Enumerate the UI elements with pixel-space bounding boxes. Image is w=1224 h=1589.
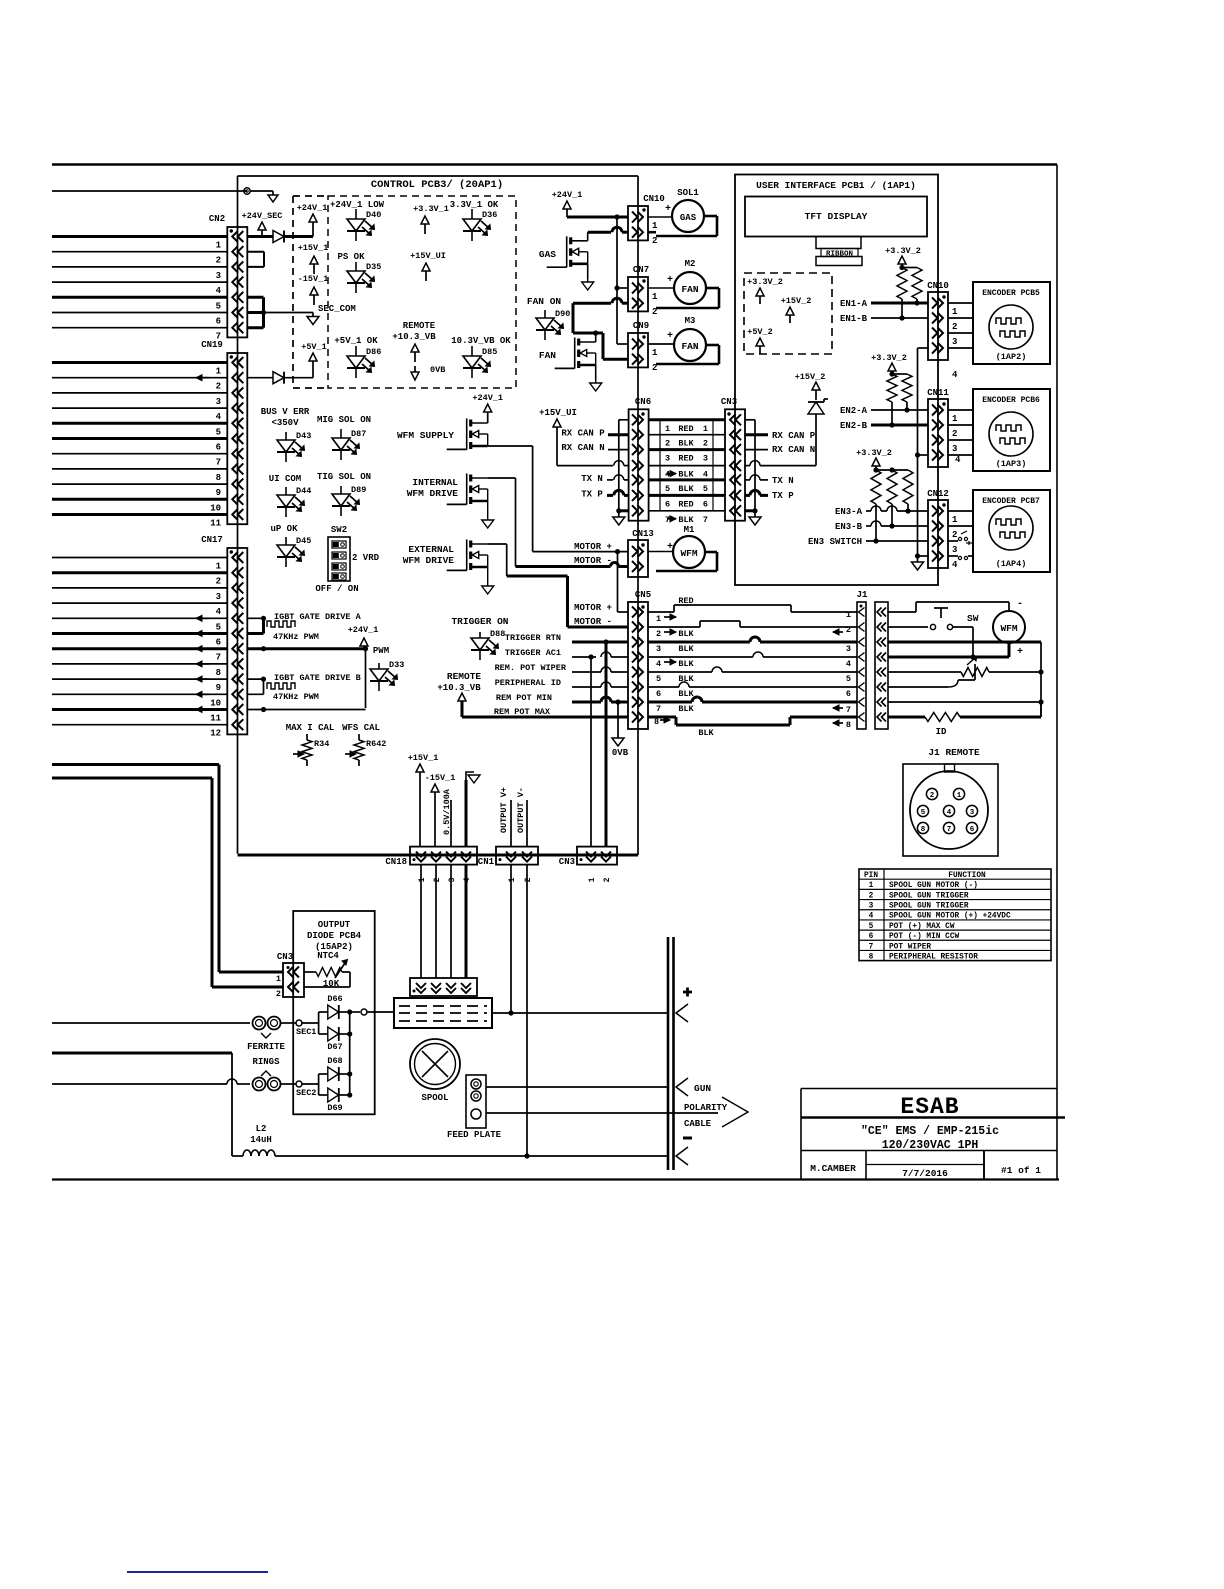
connector CN2: [209, 214, 247, 342]
wire TRIGGER RTN to CN5 pin3: [505, 633, 628, 645]
svg-text:ID: ID: [936, 727, 947, 737]
svg-text:10.3V_VB OK: 10.3V_VB OK: [451, 336, 511, 346]
svg-text:0VB: 0VB: [430, 365, 445, 375]
svg-text:+3.3V_2: +3.3V_2: [885, 246, 921, 256]
resistor ID peripheral: [888, 702, 1041, 737]
wire trigger drop to CN3 pin2: [605, 642, 608, 846]
svg-text:47KHz PWM: 47KHz PWM: [273, 632, 319, 642]
svg-text:RX CAN P: RX CAN P: [772, 431, 816, 441]
svg-text:4: 4: [947, 809, 952, 817]
svg-text:WFM: WFM: [680, 548, 697, 559]
svg-text:D36: D36: [482, 210, 497, 220]
svg-text:12: 12: [210, 729, 221, 739]
wire PERIPHERAL ID to CN5 pin6: [495, 678, 628, 688]
supply -15V_1: [298, 274, 329, 305]
connector shunt strip: [410, 978, 477, 996]
svg-text:<350V: <350V: [271, 418, 299, 428]
svg-text:6: 6: [216, 443, 221, 453]
svg-text:2: 2: [952, 530, 957, 540]
svg-text:8: 8: [216, 668, 221, 678]
svg-text:EN3 SWITCH: EN3 SWITCH: [808, 537, 862, 547]
svg-text:EXTERNAL: EXTERNAL: [408, 544, 454, 555]
svg-text:2: 2: [656, 629, 661, 639]
svg-text:1: 1: [652, 221, 658, 231]
svg-text:RINGS: RINGS: [252, 1057, 280, 1067]
wire OUTPUT V+ sense: [510, 800, 512, 847]
ground 0VB in LED box: [411, 365, 445, 380]
svg-text:BLK: BLK: [678, 439, 694, 449]
svg-text:+5V_1 OK: +5V_1 OK: [334, 336, 378, 346]
svg-text:POT (+) MAX CW: POT (+) MAX CW: [889, 923, 955, 931]
svg-text:1: 1: [957, 792, 962, 800]
connector CN13: [628, 529, 654, 577]
svg-text:10K: 10K: [323, 979, 340, 989]
svg-text:OUTPUT V+: OUTPUT V+: [499, 787, 509, 833]
svg-text:PS OK: PS OK: [337, 252, 365, 262]
svg-text:REM POT MIN: REM POT MIN: [496, 693, 552, 703]
user interface PCB1 outline (1AP1): [735, 175, 938, 586]
svg-text:PERIPHERAL ID: PERIPHERAL ID: [495, 678, 561, 688]
svg-text:1: 1: [418, 877, 427, 882]
svg-text:+24V_SEC: +24V_SEC: [242, 211, 283, 221]
svg-text:10: 10: [210, 698, 221, 708]
svg-text:+15V_UI: +15V_UI: [410, 251, 446, 261]
label 0.5V/100A shunt signal: [442, 788, 452, 847]
svg-text:CN2: CN2: [209, 214, 225, 224]
wire RX CAN N left: [561, 443, 628, 453]
svg-text:2: 2: [276, 989, 281, 999]
encoder PCB6 (1AP3): [948, 389, 1050, 471]
svg-text:3: 3: [216, 592, 221, 602]
zener +15V_2 CAN termination: [745, 372, 828, 466]
svg-text:2: 2: [952, 429, 957, 439]
svg-text:+24V_1: +24V_1: [348, 625, 379, 635]
svg-text:BLK: BLK: [678, 629, 694, 639]
connector CN10 gas valve: [628, 194, 665, 246]
svg-text:2: 2: [524, 877, 533, 882]
svg-text:TX N: TX N: [772, 476, 794, 486]
svg-text:4: 4: [952, 370, 958, 380]
svg-text:J1 REMOTE: J1 REMOTE: [928, 747, 980, 758]
svg-text:+15V_2: +15V_2: [781, 296, 812, 306]
wire J1 pin7: [888, 701, 1041, 703]
LED D88 TRIGGER ON: [451, 616, 508, 660]
wire polarity cable: [486, 1097, 748, 1127]
wire gun negative feed: [52, 1052, 232, 1055]
svg-text:RED: RED: [678, 424, 693, 434]
encoder PCB7 (1AP4): [948, 490, 1050, 572]
svg-text:3.3V_1 OK: 3.3V_1 OK: [450, 200, 499, 210]
svg-text:1: 1: [952, 307, 958, 317]
svg-text:+5V_2: +5V_2: [747, 327, 773, 337]
dashed UI supply box: [744, 273, 832, 354]
svg-text:OFF / ON: OFF / ON: [315, 584, 358, 594]
diode D CN19 pin2 +5V_1: [247, 361, 313, 384]
wire thermistor feed lower: [52, 778, 283, 987]
wire OUTPUT V- sense: [526, 800, 528, 847]
svg-text:EN1-B: EN1-B: [840, 314, 868, 324]
terminal SEC2: [280, 1081, 316, 1098]
svg-text:7/7/2016: 7/7/2016: [902, 1168, 948, 1179]
svg-text:3: 3: [952, 545, 957, 555]
svg-text:4: 4: [656, 659, 661, 669]
connector CN7 fan M2: [628, 265, 658, 317]
ferrite rings SEC2: [253, 1078, 281, 1091]
svg-text:UI COM: UI COM: [269, 474, 301, 484]
connector CN9 fan M3: [628, 321, 658, 373]
svg-text:1: 1: [216, 241, 222, 251]
solenoid SOL1 GAS: [648, 188, 717, 236]
svg-text:EN1-A: EN1-A: [840, 299, 868, 309]
svg-text:CABLE: CABLE: [684, 1119, 712, 1129]
svg-text:+10.3_VB: +10.3_VB: [392, 332, 436, 342]
svg-text:3: 3: [665, 454, 670, 464]
connector CN6: [629, 397, 652, 521]
svg-text:CN18: CN18: [385, 857, 407, 867]
svg-text:+24V_1: +24V_1: [552, 190, 583, 200]
svg-text:CN11: CN11: [927, 388, 949, 398]
wire EN3-B: [835, 521, 928, 532]
control PCB3 board outline (20AP1): [238, 176, 639, 855]
svg-text:(1AP2): (1AP2): [996, 352, 1027, 362]
svg-text:RED: RED: [678, 596, 693, 606]
svg-text:CN6: CN6: [635, 397, 651, 407]
svg-text:6: 6: [216, 638, 221, 648]
svg-text:BLK: BLK: [678, 470, 694, 480]
LED D44: [277, 486, 311, 517]
svg-text:6: 6: [216, 317, 221, 327]
svg-text:7: 7: [703, 515, 708, 525]
svg-text:DIODE PCB4: DIODE PCB4: [307, 931, 362, 941]
svg-text:SPOOL GUN MOTOR (+) +24VDC: SPOOL GUN MOTOR (+) +24VDC: [889, 913, 1011, 921]
svg-text:CN10: CN10: [643, 194, 665, 204]
switch SW spool gun trigger: [888, 608, 979, 660]
svg-text:TIG SOL ON: TIG SOL ON: [317, 472, 371, 482]
svg-text:7: 7: [665, 515, 670, 525]
wire EN3 SWITCH: [808, 537, 928, 547]
svg-text:CN9: CN9: [633, 321, 649, 331]
trimpot R34 MAX I CAL: [286, 723, 335, 766]
svg-text:R34: R34: [314, 739, 329, 749]
supply +5V_1: [301, 342, 327, 361]
svg-text:WFS CAL: WFS CAL: [342, 723, 380, 733]
svg-text:#1 of 1: #1 of 1: [1001, 1165, 1041, 1176]
svg-text:5: 5: [656, 674, 661, 684]
svg-text:MIG SOL ON: MIG SOL ON: [317, 415, 371, 425]
svg-text:INTERNAL: INTERNAL: [412, 477, 458, 488]
svg-text:6: 6: [703, 499, 708, 509]
svg-text:4: 4: [952, 560, 958, 570]
svg-text:1: 1: [652, 348, 658, 358]
svg-text:2: 2: [703, 439, 708, 449]
wires CN2 pins to left edge: [52, 237, 227, 328]
svg-text:47KHz PWM: 47KHz PWM: [273, 692, 319, 702]
node IGBT GATE DRIVE A: [247, 612, 361, 642]
wire TX N left: [581, 474, 628, 484]
svg-text:D85: D85: [482, 347, 497, 357]
svg-text:SPOOL: SPOOL: [421, 1093, 448, 1103]
svg-text:GAS: GAS: [680, 213, 697, 223]
resistors EN3 pullups +3.3V_2: [856, 448, 913, 544]
svg-text:(1AP3): (1AP3): [996, 459, 1027, 469]
wire diode cathode bus: [350, 1009, 394, 1095]
svg-text:ENCODER PCB5: ENCODER PCB5: [982, 289, 1040, 298]
svg-text:+3.3V_2: +3.3V_2: [856, 448, 892, 458]
wire trigger drop to CN3 pin1: [590, 657, 592, 846]
wire REM. POT WIPER to CN5 pin5: [495, 663, 628, 673]
svg-text:CONTROL PCB3/ (20AP1): CONTROL PCB3/ (20AP1): [371, 179, 503, 191]
svg-text:FAN: FAN: [681, 341, 698, 352]
svg-text:+10.3_VB: +10.3_VB: [437, 683, 481, 693]
svg-text:10: 10: [210, 503, 221, 513]
dashed partition line control PCB: [292, 196, 294, 388]
svg-text:CN19: CN19: [201, 340, 223, 350]
svg-text:1: 1: [952, 515, 958, 525]
wire top auxiliary with terminal: [52, 188, 278, 202]
transistor Q GAS solenoid driver: [539, 236, 588, 267]
svg-text:RX CAN P: RX CAN P: [561, 429, 605, 439]
svg-text:1: 1: [846, 610, 851, 620]
wire J1 pin5 to pot: [888, 671, 961, 673]
svg-text:+15V_1: +15V_1: [298, 243, 329, 253]
svg-text:CN10: CN10: [927, 281, 949, 291]
svg-text:WFM DRIVE: WFM DRIVE: [407, 488, 459, 499]
connector CN19: [201, 340, 247, 529]
bus encoder pin4 common: [912, 348, 929, 570]
wire INTERNAL drain to MOTOR- rail: [488, 478, 516, 567]
svg-text:3: 3: [869, 903, 874, 911]
svg-text:+: +: [667, 275, 673, 286]
svg-text:SPOOL GUN TRIGGER: SPOOL GUN TRIGGER: [889, 892, 969, 900]
RIBBON cable: [816, 237, 862, 266]
svg-text:-: -: [1017, 599, 1023, 610]
svg-text:FAN: FAN: [539, 350, 556, 361]
svg-text:IGBT GATE DRIVE B: IGBT GATE DRIVE B: [274, 673, 361, 683]
svg-text:GUN: GUN: [694, 1083, 711, 1094]
svg-text:D40: D40: [366, 210, 381, 220]
node IGBT GATE DRIVE B: [247, 673, 360, 702]
svg-text:SW: SW: [967, 613, 979, 624]
svg-text:4: 4: [216, 412, 222, 422]
svg-text:USER INTERFACE PCB1 / (1AP1): USER INTERFACE PCB1 / (1AP1): [756, 180, 916, 191]
wire CN1 pin1 output V+ sense drop: [508, 865, 513, 1016]
svg-text:9: 9: [216, 683, 221, 693]
wire CN2 pins2-3 bracket: [247, 252, 264, 267]
svg-text:3: 3: [703, 454, 708, 464]
svg-text:8: 8: [846, 720, 851, 730]
table PIN FUNCTION: [859, 869, 1051, 961]
svg-text:11: 11: [210, 714, 221, 724]
svg-text:POT WIPER: POT WIPER: [889, 943, 931, 951]
label BUS V ERR <350V: [261, 407, 310, 428]
svg-text:BLK: BLK: [678, 659, 694, 669]
svg-text:5: 5: [216, 427, 221, 437]
svg-text:D66: D66: [327, 994, 342, 1004]
svg-text:4: 4: [216, 607, 222, 617]
svg-text:2: 2: [869, 892, 874, 900]
svg-text:0VB: 0VB: [612, 748, 629, 758]
svg-text:7: 7: [216, 653, 221, 663]
connector J1 socket: [875, 602, 888, 729]
connector CN5: [628, 590, 651, 729]
LED D35 PS OK: [337, 252, 381, 293]
svg-text:2: 2: [603, 877, 612, 882]
svg-text:ESAB: ESAB: [900, 1094, 959, 1120]
supply +3.3V_1: [413, 204, 449, 234]
svg-text:6: 6: [970, 826, 975, 834]
wire RX CAN N right: [745, 445, 815, 455]
shield bracket CN3 with ground: [745, 420, 761, 525]
svg-text:1: 1: [703, 424, 708, 434]
connector CN17: [201, 535, 247, 739]
svg-text:+5V_1: +5V_1: [301, 342, 327, 352]
wire RX CAN P left: [561, 429, 628, 439]
wire REM POT MIN to CN5 pin7: [496, 693, 628, 705]
svg-text:6: 6: [656, 689, 661, 699]
terminal SEC1: [280, 1020, 316, 1037]
wire +24V_1 PWM rail CN17 pin7: [247, 625, 378, 708]
svg-text:REMOTE: REMOTE: [403, 321, 436, 331]
node +24V_SEC: [242, 211, 283, 237]
svg-text:BLK: BLK: [678, 515, 694, 525]
svg-text:1: 1: [216, 367, 222, 377]
svg-text:+3.3V_2: +3.3V_2: [747, 277, 783, 287]
svg-text:EN2-A: EN2-A: [840, 406, 868, 416]
svg-text:TRIGGER RTN: TRIGGER RTN: [505, 633, 561, 643]
svg-text:5: 5: [216, 301, 221, 311]
TFT DISPLAY block: [745, 197, 927, 237]
wire J1 pin4 to WFM plus: [888, 643, 1009, 657]
connector CN12 encoder3: [927, 489, 958, 570]
svg-text:8: 8: [654, 717, 659, 727]
svg-text:D88: D88: [490, 629, 505, 639]
svg-text:2: 2: [652, 236, 657, 246]
CAN cable table CN6-CN3: [649, 420, 725, 525]
svg-text:1: 1: [652, 292, 658, 302]
svg-text:D89: D89: [351, 485, 366, 495]
svg-text:1: 1: [276, 974, 281, 984]
svg-text:14uH: 14uH: [250, 1135, 272, 1145]
svg-text:2: 2: [433, 877, 442, 882]
wire REM POT MAX / REMOTE +10.3_VB to CN5 pin8: [437, 671, 628, 717]
svg-text:6: 6: [846, 689, 851, 699]
svg-text:CN12: CN12: [927, 489, 949, 499]
label REMOTE +10.3_VB: [392, 321, 436, 362]
svg-text:RIBBON: RIBBON: [826, 251, 853, 259]
svg-text:FERRITE: FERRITE: [247, 1042, 285, 1052]
svg-text:D44: D44: [296, 486, 311, 496]
svg-text:BLK: BLK: [678, 689, 694, 699]
LED D86 +5V_1 OK: [334, 336, 381, 378]
spool symbol: [410, 1039, 460, 1103]
connector CN10 encoder1: [927, 281, 958, 380]
svg-text:3: 3: [952, 337, 957, 347]
svg-text:PERIPHERAL RESISTOR: PERIPHERAL RESISTOR: [889, 953, 978, 961]
potentiometer remote pot: [961, 656, 1041, 680]
wire EN2-A: [840, 406, 928, 416]
svg-text:TRIGGER AC1: TRIGGER AC1: [505, 648, 561, 658]
svg-text:POT (-) MIN CCW: POT (-) MIN CCW: [889, 933, 960, 941]
svg-text:D43: D43: [296, 431, 311, 441]
svg-text:1: 1: [588, 877, 597, 882]
svg-text:+24V_1: +24V_1: [472, 393, 503, 403]
svg-text:5: 5: [703, 484, 708, 494]
svg-text:RX CAN N: RX CAN N: [561, 443, 604, 453]
svg-text:8: 8: [921, 826, 926, 834]
svg-text:+24V_1: +24V_1: [297, 203, 328, 213]
svg-text:+: +: [667, 331, 673, 342]
svg-text:M2: M2: [685, 259, 696, 269]
wire GAS drain to CN10 pin2: [588, 227, 628, 241]
svg-text:D69: D69: [327, 1103, 342, 1113]
svg-text:2 VRD: 2 VRD: [352, 553, 380, 563]
svg-text:SW2: SW2: [331, 525, 347, 535]
svg-text:3: 3: [216, 271, 221, 281]
svg-text:1: 1: [216, 562, 222, 572]
wires CN17 pins to left edge: [52, 558, 227, 725]
svg-text:(1AP4): (1AP4): [996, 559, 1027, 569]
svg-text:BLK: BLK: [678, 644, 694, 654]
wire SEC_COM rail: [247, 297, 356, 327]
svg-text:TRIGGER ON: TRIGGER ON: [451, 616, 508, 627]
svg-text:CN3: CN3: [559, 857, 575, 867]
svg-text:2: 2: [216, 577, 221, 587]
supply +24V_1 fan rail: [552, 190, 628, 344]
svg-text:SEC1: SEC1: [296, 1027, 316, 1037]
svg-text:4: 4: [846, 659, 851, 669]
svg-text:+24V_1 LOW: +24V_1 LOW: [330, 200, 385, 210]
svg-text:5: 5: [665, 484, 670, 494]
svg-text:MOTOR -: MOTOR -: [574, 617, 612, 627]
wires CN18 to shunt connector: [421, 865, 466, 978]
connector CN11 encoder2: [927, 388, 961, 467]
ground shunt return: [466, 772, 480, 847]
wire J1 pin1 to WFM minus: [888, 599, 1023, 612]
svg-text:4: 4: [869, 913, 874, 921]
svg-text:1: 1: [508, 877, 517, 882]
svg-text:-15V_1: -15V_1: [298, 274, 329, 284]
svg-text:CN1: CN1: [478, 857, 495, 867]
harness CN5 to J1: [648, 596, 857, 738]
output diode PCB4 outline (15AP2): [293, 911, 375, 1114]
border frame: [52, 165, 1059, 1180]
svg-text:+15V_1: +15V_1: [408, 753, 439, 763]
svg-text:RX CAN N: RX CAN N: [772, 445, 815, 455]
svg-text:PWM: PWM: [373, 646, 389, 656]
svg-text:uP OK: uP OK: [270, 524, 298, 534]
svg-text:EN3-B: EN3-B: [835, 522, 863, 532]
svg-text:2: 2: [216, 256, 221, 266]
svg-text:2: 2: [216, 382, 221, 392]
svg-text:1: 1: [952, 414, 958, 424]
svg-text:BUS V ERR: BUS V ERR: [261, 407, 310, 417]
svg-text:-15V_1: -15V_1: [425, 773, 456, 783]
svg-text:ENCODER PCB6: ENCODER PCB6: [982, 396, 1040, 405]
LED D45: [277, 536, 311, 567]
resistors EN2 pullups +3.3V_2: [871, 353, 912, 428]
wire TRIGGER AC1 to CN5 pin4: [505, 648, 628, 660]
wire TX P right: [745, 490, 794, 501]
wire +15V_UI to CN6 pin4: [539, 408, 629, 466]
svg-text:5: 5: [869, 923, 874, 931]
LED D40 +24V_1 LOW: [330, 200, 385, 241]
inductor L2 14uH: [232, 1053, 668, 1156]
svg-text:TX P: TX P: [581, 490, 603, 500]
svg-text:GAS: GAS: [539, 249, 556, 260]
svg-text:CN7: CN7: [633, 265, 649, 275]
busbar shunt: [394, 998, 492, 1028]
svg-text:D45: D45: [296, 536, 311, 546]
